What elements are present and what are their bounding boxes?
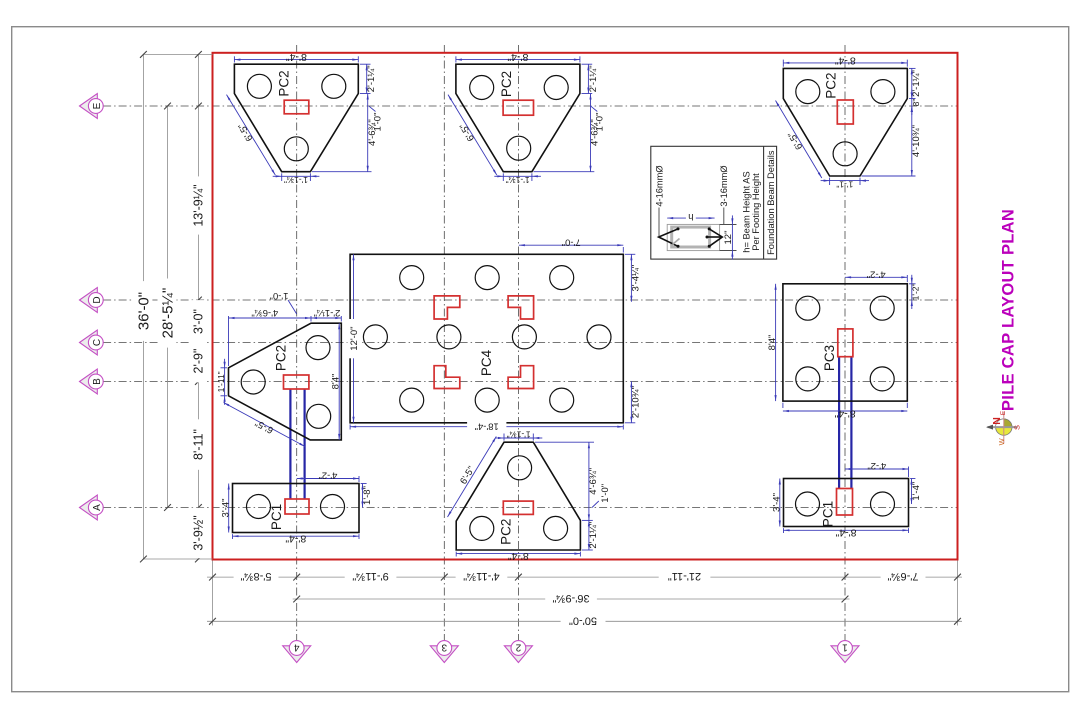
- svg-text:4: 4: [293, 642, 299, 653]
- svg-text:4'-2": 4'-2": [318, 470, 337, 481]
- svg-text:PC2: PC2: [499, 71, 514, 97]
- svg-text:8'-4": 8'-4": [285, 533, 306, 545]
- dim 36'-9 3/4": [545, 592, 597, 606]
- pile cap PC1 (right) outline: [784, 479, 909, 527]
- PC4 piles row 3: [400, 388, 424, 412]
- dim 3'-4 1/4" PC4: [625, 253, 635, 255]
- PC1 left column (red): [285, 499, 309, 514]
- svg-text:36'-9¾": 36'-9¾": [552, 592, 589, 604]
- bottom dim row 1 line: [207, 576, 962, 578]
- grid line 3: [443, 45, 445, 641]
- svg-text:W: W: [997, 437, 1006, 445]
- beam section rebar cage: [659, 229, 678, 246]
- pile cap PC4 outline: [350, 254, 623, 422]
- svg-text:9'-11¾": 9'-11¾": [352, 570, 388, 582]
- beam section concrete outline: [667, 224, 719, 250]
- svg-text:3'-0": 3'-0": [192, 309, 206, 334]
- PC4 piles row 1: [400, 266, 424, 290]
- dim 4'-2" PC3: [906, 275, 908, 282]
- grid line D: [103, 299, 957, 301]
- PC4 column L bottom-right (red): [508, 366, 533, 389]
- dim 4'-6 3/4" PC2 top-center: [534, 171, 595, 173]
- foundation beam grid4 B-A (blue): [289, 389, 291, 499]
- svg-text:1'-4": 1'-4": [911, 482, 922, 501]
- PC1 right column (red): [837, 489, 853, 516]
- svg-text:8'-11": 8'-11": [192, 429, 206, 460]
- dim 2'-10 3/4" PC4: [625, 422, 635, 424]
- pile cap PC2 (bottom-center) outline: [456, 442, 580, 550]
- grid line A: [103, 507, 957, 509]
- label PC2 mid-left: [273, 345, 288, 371]
- svg-text:5'-8¾": 5'-8¾": [240, 570, 271, 582]
- left dim extension bottom: [143, 558, 212, 560]
- PC1 left piles: [247, 495, 271, 519]
- svg-text:18'-4": 18'-4": [475, 421, 499, 432]
- dim 4'-10 3/4" PC2 top-right: [862, 175, 916, 177]
- svg-text:8'-4": 8'-4": [507, 51, 528, 63]
- grid bubble D: [80, 288, 104, 313]
- plan boundary (red): [213, 53, 958, 560]
- svg-text:3-16mmØ: 3-16mmØ: [719, 165, 729, 206]
- svg-text:3: 3: [441, 642, 447, 653]
- bottom dim row 3 line: [207, 620, 962, 622]
- svg-text:PC2: PC2: [277, 70, 292, 96]
- dim 8'-4" PC2 bottom-center: [455, 552, 457, 557]
- grid bubble E: [80, 94, 104, 119]
- dim 8'-4" PC2 top-right: [782, 60, 784, 67]
- PC4 column L top-left (red): [434, 296, 460, 319]
- PC2 mid-left piles: [306, 336, 330, 360]
- dim 12 inch beam height: [720, 223, 737, 225]
- grid bubble A: [80, 495, 104, 520]
- leader 1'-0" PC2 top-left: [369, 106, 376, 111]
- svg-text:3'-9½": 3'-9½": [192, 515, 206, 550]
- svg-text:2'-9": 2'-9": [192, 349, 206, 374]
- svg-text:S: S: [1013, 425, 1022, 430]
- svg-text:1'-0": 1'-0": [600, 484, 611, 503]
- leader 3-16mm: [723, 208, 725, 225]
- grid line C: [103, 342, 957, 344]
- dim 50'-0": [561, 614, 606, 628]
- svg-text:PC4: PC4: [479, 349, 494, 376]
- svg-text:4'-6¾": 4'-6¾": [588, 468, 599, 495]
- leader 1'-0" PC2 bottom-center: [592, 501, 599, 508]
- svg-text:E: E: [92, 102, 103, 109]
- dim 2'-1 1/4" PC2 top-right: [909, 67, 916, 69]
- dim 6'-5" PC2 mid-left: [224, 403, 306, 447]
- label PC2 top-right: [824, 72, 839, 98]
- dim 6'-5" PC2 bottom-center: [448, 437, 497, 518]
- PC2 bottom-center piles: [470, 516, 494, 540]
- dim 4'-2" PC1 right: [908, 467, 910, 478]
- grid bubble C: [80, 330, 104, 355]
- svg-text:1'-2": 1'-2": [911, 283, 921, 300]
- svg-text:2'-10¾": 2'-10¾": [631, 386, 642, 418]
- PC4 column L top-right (red): [508, 296, 533, 319]
- svg-text:4'-6¾": 4'-6¾": [251, 307, 278, 318]
- svg-text:13'-9¼": 13'-9¼": [192, 184, 206, 226]
- svg-text:D: D: [92, 296, 103, 303]
- PC2 top-center column (red): [503, 100, 533, 115]
- svg-text:1'-11": 1'-11": [216, 371, 226, 392]
- dim 1'-1 3/4" PC2 top-left: [281, 173, 283, 181]
- label PC2 bottom-center: [498, 519, 513, 545]
- dim 8'4" PC2 mid-left: [338, 323, 340, 440]
- dim 1'-1 3/4" PC2 top-center: [502, 173, 504, 181]
- pile cap PC2 (top-right) outline: [783, 68, 907, 176]
- grid bubble 1: [831, 641, 859, 663]
- svg-text:12'-0": 12'-0": [349, 326, 360, 350]
- svg-text:1'-1¾": 1'-1¾": [284, 175, 308, 185]
- dim 6'-5" PC2 top-left: [227, 95, 276, 176]
- dim 1'-11" PC2 mid-left: [221, 367, 228, 369]
- svg-text:B: B: [92, 378, 103, 385]
- svg-text:1: 1: [842, 642, 848, 653]
- bottom dim extension right: [957, 561, 959, 626]
- dim 2'-9": [190, 340, 206, 383]
- svg-text:1'-0": 1'-0": [270, 290, 289, 301]
- svg-text:8'-4": 8'-4": [286, 51, 307, 63]
- title PILE CAP LAYOUT PLAN: [999, 209, 1017, 411]
- svg-text:28'-5¼": 28'-5¼": [159, 288, 176, 339]
- label Foundation Beam Details: [766, 150, 776, 255]
- svg-text:h: h: [688, 211, 693, 222]
- pile cap PC2 (top-center) outline: [456, 64, 580, 172]
- svg-text:2'-1¼": 2'-1¼": [366, 65, 377, 92]
- svg-text:7'-0": 7'-0": [562, 236, 581, 247]
- dim 28'-5 1/4" (left): [167, 106, 169, 508]
- dim 7'-6 3/4": [881, 570, 926, 584]
- dim 5'-8 3/4": [234, 570, 279, 584]
- PC2 top-left piles: [247, 74, 271, 98]
- dim 1'-1" PC2 top-right: [829, 178, 831, 185]
- dim 36'-0" (left): [142, 54, 144, 559]
- dim 1'-2" PC3: [909, 283, 916, 285]
- label PC4: [479, 349, 494, 376]
- dim h beam width: [667, 217, 714, 219]
- dim 8'-4" PC3 bottom: [782, 403, 784, 408]
- beam section hatch: [673, 239, 680, 245]
- label PC2 top-center: [499, 71, 514, 97]
- PC1 right piles: [796, 492, 820, 516]
- note h= Beam Height AS: [741, 171, 751, 252]
- svg-text:h= Beam Height AS: h= Beam Height AS: [741, 171, 751, 252]
- svg-text:C: C: [92, 339, 103, 346]
- dim 3'-4" PC1 right: [779, 479, 781, 527]
- left dim chain line: [197, 54, 199, 559]
- dim 21'-11": [659, 570, 711, 584]
- PC2 top-right column (red): [837, 100, 853, 124]
- bottom dim extension left: [212, 561, 214, 626]
- PC2 top-right piles: [796, 80, 820, 104]
- leader 1'-0" PC2 top-center: [591, 106, 598, 111]
- svg-text:Foundation Beam Details: Foundation Beam Details: [766, 150, 776, 255]
- PC3 column (red): [838, 329, 853, 357]
- svg-text:1'-8": 1'-8": [362, 486, 373, 505]
- svg-text:8'-4": 8'-4": [835, 54, 856, 66]
- PC4 column L bottom-left (red): [434, 366, 460, 389]
- PC2 bottom-center column (red): [503, 501, 533, 514]
- dim 4'-6 3/4" + 2'-1 1/4" PC2 mid-left: [228, 316, 230, 366]
- dim 8'-4" PC1 left: [232, 534, 234, 539]
- pile cap PC1 (left) outline: [233, 484, 360, 533]
- dim 13'-9 1/4": [190, 176, 206, 234]
- svg-text:3'-4": 3'-4": [220, 499, 231, 518]
- PC3 piles: [796, 296, 820, 320]
- svg-text:3'-4¼": 3'-4¼": [631, 265, 642, 292]
- svg-text:50'-0": 50'-0": [569, 614, 597, 626]
- grid line 1: [844, 45, 846, 641]
- grid line 4: [296, 45, 298, 641]
- dim 8" PC2 top-right: [911, 99, 913, 107]
- svg-text:1'-0": 1'-0": [373, 113, 384, 132]
- label PC2 top-left: [277, 70, 292, 96]
- dim 3'-4" PC1 left: [228, 484, 230, 533]
- pile cap PC2 (mid-left) outline: [229, 323, 342, 440]
- dim 2'-1 1/4" PC2 bottom-center: [582, 519, 593, 521]
- dim 7'-0" PC4: [622, 247, 624, 253]
- label 4-16mm dia: [654, 165, 664, 206]
- PC2 top-left column (red): [284, 100, 309, 114]
- dim 2'-1 1/4" PC2 top-center: [582, 63, 593, 65]
- svg-text:12": 12": [723, 231, 734, 245]
- svg-text:PILE CAP LAYOUT PLAN: PILE CAP LAYOUT PLAN: [999, 209, 1017, 411]
- svg-text:A: A: [92, 504, 103, 511]
- dim 6'-5" PC2 top-right: [776, 101, 822, 179]
- svg-text:8'4": 8'4": [767, 335, 778, 351]
- svg-text:PC2: PC2: [273, 345, 288, 371]
- dim 9'-11 3/4": [345, 570, 397, 584]
- dim 8'-11": [190, 419, 206, 470]
- north compass symbol: [986, 410, 1022, 445]
- label PC1 left: [269, 504, 284, 530]
- PC4 piles row 2: [363, 325, 387, 349]
- svg-text:21'-11": 21'-11": [668, 570, 701, 582]
- dim 12'-0" PC4: [353, 254, 355, 422]
- dim 3'-9 1/2": [190, 508, 206, 559]
- dim 8'4" PC3: [775, 284, 777, 401]
- svg-text:4'-10¾": 4'-10¾": [911, 125, 922, 157]
- foundation beam grid1 C-A (blue): [838, 357, 840, 489]
- svg-text:PC3: PC3: [822, 345, 837, 371]
- svg-text:PC2: PC2: [824, 72, 839, 98]
- svg-text:PC1: PC1: [269, 504, 284, 530]
- svg-text:Per Footing Height: Per Footing Height: [751, 173, 761, 251]
- PC2 mid-left column (red): [284, 375, 309, 389]
- svg-text:1'-1¾": 1'-1¾": [507, 430, 531, 440]
- leader 4-16mm: [658, 208, 660, 237]
- left dim extension top: [143, 53, 212, 55]
- svg-text:2'-1¼": 2'-1¼": [588, 65, 599, 92]
- dim 18'-4" PC4: [349, 424, 351, 429]
- svg-text:36'-0": 36'-0": [135, 292, 152, 330]
- dim 8'-4" PC1 right: [783, 528, 785, 533]
- svg-text:PC2: PC2: [498, 519, 513, 545]
- grid bubble 2: [504, 641, 532, 663]
- svg-text:1'-0": 1'-0": [594, 113, 605, 132]
- label PC1 right: [820, 501, 835, 527]
- pile cap PC2 (top-left) outline: [234, 64, 358, 172]
- leader 1'-0" PC2 mid-left: [288, 300, 297, 314]
- svg-text:4'-2": 4'-2": [867, 460, 886, 471]
- dim 4'-2" PC1 left: [358, 476, 360, 482]
- svg-text:4'-11¾": 4'-11¾": [463, 570, 499, 582]
- dim 2'-1 1/4" PC2 top-left: [360, 63, 371, 65]
- dim 6'-5" PC2 top-center: [448, 95, 497, 176]
- grid line 2: [517, 45, 519, 641]
- grid bubble 3: [430, 641, 458, 663]
- dim 8'-4" PC2 top-left: [233, 56, 235, 62]
- dim 8'-4" PC2 top-center: [455, 56, 457, 62]
- dim 1'-8" PC1 left: [361, 483, 367, 485]
- dim 1'-4" PC1 right: [910, 478, 915, 480]
- dim 1'-1 3/4" PC2 bottom-center: [503, 434, 505, 441]
- dim 3'-0": [190, 300, 206, 343]
- svg-text:3'-4": 3'-4": [771, 493, 782, 512]
- dim 4'-6 3/4" PC2 bottom-center: [535, 441, 594, 443]
- svg-text:8'-4": 8'-4": [508, 550, 529, 562]
- grid line E: [103, 105, 957, 107]
- svg-text:4-16mmØ: 4-16mmØ: [654, 165, 664, 206]
- grid bubble B: [80, 369, 104, 394]
- pile cap PC3 outline: [783, 284, 907, 401]
- svg-text:8'-4": 8'-4": [835, 527, 856, 539]
- svg-text:4'-2": 4'-2": [867, 269, 886, 280]
- PC2 top-center piles: [470, 76, 494, 100]
- svg-text:7'-6¾": 7'-6¾": [887, 570, 918, 582]
- label PC3: [822, 345, 837, 371]
- svg-text:1'-1¾": 1'-1¾": [506, 175, 530, 185]
- svg-text:8": 8": [911, 99, 921, 107]
- bottom dim row 2 line: [293, 598, 850, 600]
- dim 4'-6 3/4" PC2 top-left: [312, 171, 372, 173]
- svg-text:8'-4": 8'-4": [834, 407, 855, 419]
- grid line B: [103, 381, 957, 383]
- svg-text:1'-1": 1'-1": [836, 179, 853, 189]
- svg-text:PC1: PC1: [820, 501, 835, 527]
- dim 4'-11 3/4": [456, 570, 508, 584]
- svg-text:2'-1¼": 2'-1¼": [588, 522, 599, 549]
- svg-text:8'4": 8'4": [331, 374, 342, 390]
- svg-text:2'-1¼": 2'-1¼": [314, 307, 341, 318]
- note Per Footing Height: [751, 173, 761, 251]
- svg-text:N: N: [991, 417, 1003, 425]
- grid bubble 4: [283, 641, 311, 663]
- foundation beam details box: [651, 146, 777, 259]
- svg-text:2: 2: [515, 642, 521, 653]
- label 3-16mm dia: [719, 165, 729, 206]
